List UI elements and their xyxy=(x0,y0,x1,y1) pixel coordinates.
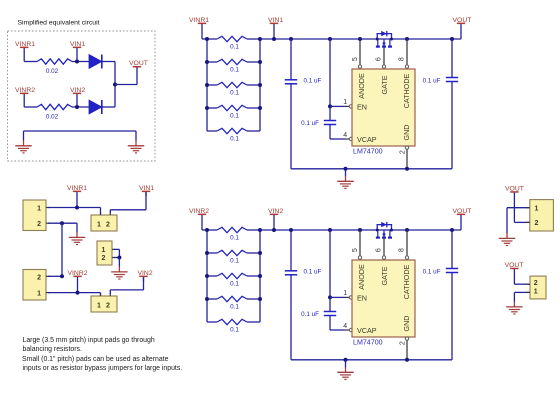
svg-text:2: 2 xyxy=(37,274,41,281)
net label VIN2 xyxy=(138,270,153,281)
svg-text:2: 2 xyxy=(534,280,538,287)
channel 1 circuit xyxy=(202,25,461,189)
svg-text:2: 2 xyxy=(102,255,106,262)
svg-text:1: 1 xyxy=(97,302,101,309)
net label VOUT xyxy=(453,208,472,216)
svg-text:1: 1 xyxy=(37,205,41,212)
svg-text:0.02: 0.02 xyxy=(46,68,59,75)
junction VIN2 xyxy=(75,105,79,109)
diode D1 xyxy=(89,55,102,69)
pad P7 (small VOUT pad) xyxy=(530,276,546,299)
svg-text:Large (3.5 mm pitch) input pad: Large (3.5 mm pitch) input pads go throu… xyxy=(23,337,155,344)
wire resistor to VIN1 node xyxy=(72,61,89,63)
wire pad P1 pin2 xyxy=(48,222,77,224)
channel 2 circuit xyxy=(202,216,461,380)
net label VIN1 xyxy=(70,41,85,62)
wire pad P2 pin2 to VIN1 xyxy=(109,210,111,213)
ground (VOUT pads upper) xyxy=(499,232,516,246)
svg-text:1: 1 xyxy=(534,288,538,295)
net label VIN2 xyxy=(70,87,85,107)
ground (left) xyxy=(15,131,32,153)
wire output node to VOUT xyxy=(115,84,137,86)
wire tie down to lower group xyxy=(61,223,63,276)
junction VINR1 pad node xyxy=(75,206,79,210)
pad P5 (small pad 1 2) xyxy=(91,296,117,312)
net label VOUT xyxy=(505,262,524,284)
ground (VOUT pads lower) xyxy=(506,301,523,315)
net label VINR2 xyxy=(68,270,88,293)
pad P4 (large input pad VINR2/VIN2) xyxy=(23,270,46,301)
junction P3 tie xyxy=(117,256,121,260)
net label VOUT xyxy=(505,185,524,222)
wire VOUT to pad pin 2 xyxy=(514,221,529,223)
net label VINR2 xyxy=(15,87,35,107)
wire pad pin 1 to ground (lower) xyxy=(514,291,529,293)
svg-text:1: 1 xyxy=(37,291,41,298)
wire pad P4 pin2 tie xyxy=(48,275,62,277)
net label VIN2 xyxy=(268,208,283,216)
svg-text:1: 1 xyxy=(102,247,106,254)
pad P3 (small pad 1/2 jumper) xyxy=(97,241,112,265)
net label VOUT xyxy=(129,60,148,84)
svg-text:Simplified equivalent circuit: Simplified equivalent circuit xyxy=(18,20,100,27)
net label VINR2 xyxy=(189,208,209,216)
wire pad P4 pin1 to small pad xyxy=(48,292,101,294)
net label VINR1 xyxy=(67,185,87,208)
junction pin2 tie xyxy=(60,221,64,225)
ground (pads middle) xyxy=(111,258,128,280)
ground return wire xyxy=(24,130,137,132)
net label VOUT xyxy=(453,17,472,25)
svg-text:1: 1 xyxy=(97,221,101,228)
junction output node xyxy=(113,83,117,87)
junction VINR2 pad node xyxy=(76,291,80,295)
wire VINR2 to resistor xyxy=(24,106,37,108)
dashed boundary: simplified equivalent circuit xyxy=(8,31,156,161)
wire VINR1 to resistor xyxy=(24,61,37,63)
ground (right) xyxy=(128,131,145,153)
wire diode2 cathode to output node xyxy=(102,106,115,108)
net label VINR1 xyxy=(189,17,209,25)
net label VIN1 xyxy=(268,17,283,25)
wire resistor to VIN2 node xyxy=(72,106,89,108)
wire VOUT to pad pin 2 (lower) xyxy=(514,283,529,285)
diode D2 xyxy=(89,100,102,114)
svg-text:inputs or as resistor bypass j: inputs or as resistor bypass jumpers for… xyxy=(23,365,183,372)
svg-text:0.02: 0.02 xyxy=(46,113,59,120)
wire diode1 cathode to output node xyxy=(102,61,115,63)
resistor 0.02 (row 2) xyxy=(37,104,72,109)
net label VINR1 xyxy=(15,41,35,62)
ground (pads upper) xyxy=(69,223,86,244)
svg-text:Small (0.1" pitch) pads can be: Small (0.1" pitch) pads can be used as a… xyxy=(22,356,169,363)
svg-text:2: 2 xyxy=(106,302,110,309)
resistor 0.02 (row 1) xyxy=(37,59,72,64)
pad P1 (large input pad VINR1/VIN1) xyxy=(23,200,46,231)
svg-text:2: 2 xyxy=(37,221,41,228)
wire pad P5 pin2 to VIN2 xyxy=(109,290,111,294)
wire pad pin 1 to ground xyxy=(507,207,530,209)
svg-text:2: 2 xyxy=(106,221,110,228)
pad P2 (small pad 1 2) xyxy=(91,215,117,231)
net label VIN1 xyxy=(139,185,154,196)
svg-text:balancing resistors.: balancing resistors. xyxy=(23,346,82,353)
wire pad P1 pin1 to small pad xyxy=(48,207,101,209)
svg-text:1: 1 xyxy=(535,206,539,213)
pad P6 (large VOUT pad) xyxy=(530,200,554,231)
wire pad P3 pins tied xyxy=(114,248,119,250)
junction VIN1 xyxy=(75,60,79,64)
svg-text:2: 2 xyxy=(535,220,539,227)
junction tie lower xyxy=(60,274,64,278)
